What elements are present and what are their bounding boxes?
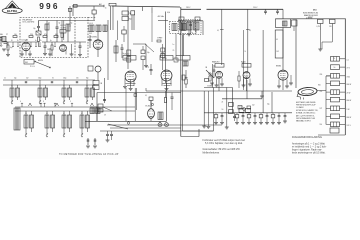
- smoothing resistor R22: [229, 102, 234, 106]
- wire vertical x128: [127, 7, 129, 69]
- wire FM bus horizontal: [2, 41, 38, 43]
- tube V1 pin grounds: [21, 51, 23, 55]
- svg-text:50: 50: [222, 109, 224, 111]
- gang capacitor arrows: [29, 103, 32, 106]
- resistor R4: [51, 45, 53, 50]
- tuning coil bank B L20: [24, 115, 28, 128]
- svg-text:50: 50: [334, 67, 336, 69]
- wire vertical x208.3: [207, 91, 209, 126]
- svg-text:37: 37: [63, 86, 65, 88]
- wire mid bus y98.8: [222, 98, 262, 100]
- svg-text:25 W: 25 W: [347, 93, 351, 95]
- wire x104.5 down: [104, 78, 106, 103]
- svg-text:er imidlertid med 1 — 2 og 2 k: er imidlertid med 1 — 2 og 2 kob-: [292, 146, 327, 149]
- resistor R2: [61, 33, 63, 38]
- wire vertical x203 stub: [202, 21, 204, 35]
- svg-text:27: 27: [6, 34, 8, 36]
- trimmer row A caps: [25, 81, 27, 83]
- tube V8 pin grounds: [278, 80, 280, 87]
- wire loop bottom: [85, 120, 167, 122]
- svg-text:6k8: 6k8: [55, 34, 58, 36]
- switch contact A4: [86, 101, 88, 103]
- decoupling capacitor on AF bus 10: [278, 113, 280, 116]
- svg-text:Anvisninger på 1 — 2 og 2 Watt: Anvisninger på 1 — 2 og 2 Watt: [292, 143, 325, 146]
- svg-text:220: 220: [329, 26, 332, 28]
- svg-text:47k: 47k: [44, 34, 47, 36]
- wire mid horizontal y44: [133, 43, 146, 45]
- dial lamp L2: [165, 123, 169, 127]
- svg-text:0,1: 0,1: [347, 59, 349, 61]
- svg-text:EABC80: EABC80: [212, 61, 219, 64]
- aerial coil tap: [93, 6, 95, 10]
- svg-text:2k: 2k: [40, 40, 42, 42]
- stubs above bus B: [21, 103, 23, 107]
- wire bottom right bus: [318, 134, 345, 136]
- AF driver tube V7 EL84: [243, 72, 250, 79]
- tube V6 pin grounds: [216, 78, 218, 85]
- svg-text:2k: 2k: [222, 102, 224, 104]
- AVC filter boxes: [93, 81, 99, 85]
- wire y20 stub: [158, 19, 168, 21]
- capacitor C1 FM input: [38, 21, 40, 27]
- FM tube V1 UCC85 triode a: [22, 42, 30, 50]
- svg-text:FERTES MELLEM PICK-UP: FERTES MELLEM PICK-UP: [296, 105, 316, 107]
- wire stub x152: [151, 7, 153, 13]
- dial pointer pivot: [127, 122, 129, 124]
- IF transformer T2 dashed enclosure: [170, 22, 196, 34]
- tube V5 label box: [160, 56, 173, 61]
- coupling capacitor C10: [150, 69, 153, 71]
- svg-text:7k: 7k: [244, 51, 246, 53]
- mixer anode wire: [97, 32, 99, 40]
- tube V7 pin grounds: [243, 79, 245, 86]
- wire vertical x247 drop lower: [246, 80, 248, 99]
- svg-text:6,8k: 6,8k: [167, 12, 170, 14]
- tube V4 pin wires: [124, 78, 126, 86]
- svg-text:ECH81: ECH81: [91, 37, 98, 39]
- feedback network cluster: [238, 106, 242, 110]
- voltage selector tap resistor 3: [331, 74, 340, 79]
- svg-text:36: 36: [39, 86, 41, 88]
- dipole antenna input marks: [4, 41, 8, 43]
- trimmer capacitor C2: [36, 31, 41, 35]
- IF transformer T2 trimmers: [189, 24, 192, 26]
- svg-text:0,1: 0,1: [217, 30, 219, 32]
- svg-text:50p: 50p: [147, 52, 150, 54]
- AF amp tube V6 EABC80: [216, 71, 223, 78]
- band switch S1 contacts: [24, 60, 34, 65]
- wire AM aerial rail left segment: [72, 5, 104, 7]
- svg-text:3-12: 3-12: [89, 33, 92, 35]
- svg-text:kede anvisninger er på 0,5 Wat: kede anvisninger er på 0,5 Watt.: [292, 152, 326, 155]
- decoupling capacitor on AF bus 4: [242, 113, 244, 116]
- svg-text:6,8k 100: 6,8k 100: [124, 54, 130, 56]
- FM tuner dashed top extension: [88, 17, 96, 19]
- wire FM internal top bus: [39, 20, 96, 22]
- tuning coil bank B extra pair: [90, 108, 95, 114]
- bus cluster boxes: [239, 108, 244, 112]
- switch contact B2: [46, 134, 48, 136]
- tuning coil bank B L22: [62, 115, 66, 128]
- svg-text:0,1: 0,1: [242, 63, 244, 65]
- svg-text:800 W: 800 W: [347, 84, 352, 86]
- wire long y128: [110, 127, 181, 129]
- svg-text:800 W: 800 W: [347, 100, 352, 102]
- tuning coil bank A L10: [10, 88, 14, 97]
- svg-text:220 V~: 220 V~: [308, 16, 313, 18]
- svg-text:40: 40: [46, 113, 48, 115]
- switch contact B3: [63, 134, 65, 136]
- svg-text:1k: 1k: [17, 40, 19, 42]
- svg-text:0,1: 0,1: [25, 40, 27, 42]
- svg-text:5 W: 5 W: [347, 109, 350, 111]
- FM oscillator coil L1: [45, 24, 49, 30]
- wire HT rail middle: [181, 8, 201, 10]
- svg-text:1n: 1n: [173, 44, 175, 46]
- oscillator coil bank: [89, 25, 94, 32]
- svg-text:9,5 MHz: 9,5 MHz: [61, 27, 67, 29]
- svg-text:L4 L5: L4 L5: [89, 23, 93, 25]
- svg-text:220: 220: [30, 34, 33, 36]
- wire switch bus A1: [3, 79, 95, 81]
- driver grid resistor: [238, 76, 240, 81]
- tuning coil bank B L21: [45, 115, 49, 128]
- oscillator padder tall coil: [14, 108, 20, 130]
- wire bottom AF bus: [146, 90, 292, 92]
- svg-text:1k5: 1k5: [14, 34, 17, 36]
- resistor R3: [7, 45, 9, 50]
- voltage selector tap resistor 1: [331, 57, 340, 62]
- antenna bus end marks: [103, 5, 105, 7]
- output tube cathode parts: [164, 98, 166, 103]
- IF transformer T4 coil a: [180, 22, 186, 30]
- FM tank capacitor C3: [56, 26, 59, 28]
- wire vertical x204.2: [203, 91, 205, 126]
- wire HT rail right: [276, 18, 346, 20]
- svg-text:5k 2k: 5k 2k: [239, 107, 243, 109]
- wire loop right edge: [166, 83, 168, 121]
- antenna matching box: [2, 37, 6, 42]
- decoupling component on AF bus 9: [272, 113, 274, 115]
- smoothing capacitor C23: [233, 115, 236, 117]
- svg-text:50: 50: [11, 40, 13, 42]
- svg-text:EZ80 EM80 EL84: EZ80 EM80 EL84: [303, 12, 318, 14]
- wire long y131: [100, 130, 214, 132]
- decoupling component on AF bus 5: [248, 113, 250, 115]
- aerial rail stub capacitor: [69, 6, 71, 12]
- component value row: [13, 36, 17, 38]
- svg-text:EBF80: EBF80: [124, 58, 131, 60]
- wire long y125: [107, 124, 222, 126]
- svg-text:127: 127: [320, 108, 323, 110]
- svg-text:9p: 9p: [71, 23, 73, 25]
- svg-text:80p: 80p: [86, 77, 89, 79]
- wire vertical x272 drop: [271, 92, 273, 113]
- dial lamp L1: [158, 123, 162, 127]
- voltage selector tap resistor 7: [331, 106, 340, 111]
- svg-text:1k: 1k: [4, 77, 6, 79]
- svg-text:80p: 80p: [129, 19, 132, 21]
- decoupling capacitor on AF bus 8: [266, 113, 268, 116]
- decoupling component on AF bus 7: [260, 113, 262, 115]
- tuning coil bank A L12: [62, 88, 66, 97]
- svg-text:162: 162: [276, 51, 279, 53]
- wire vertical x283 anode: [282, 9, 284, 18]
- tuning coil bank A L13: [85, 88, 89, 97]
- svg-text:250p: 250p: [63, 77, 67, 79]
- decoupling capacitor on AF bus 6: [254, 113, 256, 116]
- voltage selector tap resistor 5: [331, 90, 340, 95]
- capacitor C5: [79, 45, 82, 47]
- output transformer primary box: [275, 30, 283, 58]
- small box on HT rail: [182, 75, 185, 80]
- anode resistor stack R10: [127, 50, 131, 56]
- wire HT vertical x180.8: [180, 8, 182, 137]
- output stage socket box: [276, 19, 291, 28]
- svg-text:Grænseflader: 89 kHz ved 40: Grænseflader: 89 kHz ved 405 kHz: [203, 148, 241, 151]
- decoupling capacitor on AF bus 2: [221, 113, 223, 116]
- svg-text:12p: 12p: [33, 28, 36, 30]
- svg-text:3k: 3k: [52, 77, 54, 79]
- wire FM bottom bus: [42, 41, 86, 43]
- svg-text:P U G: P U G: [30, 66, 35, 68]
- tuning coil bank B L23: [80, 115, 84, 128]
- svg-text:50p: 50p: [14, 77, 17, 79]
- wire switch bus B1: [15, 106, 135, 108]
- svg-text:5p: 5p: [50, 40, 52, 42]
- T4 bottom marks: [180, 30, 182, 34]
- wire AF bus y112.8: [204, 112, 292, 114]
- ratio detector transformer T3: [176, 56, 190, 61]
- voltage selector tap resistor 4: [331, 81, 340, 86]
- IF transformer T4 dashed outline: [179, 20, 202, 35]
- wire vertical x221.8 drop: [221, 9, 223, 65]
- capacitor C4: [44, 45, 47, 47]
- voltage selector tap resistor 2: [331, 65, 340, 70]
- wire stub x142: [141, 7, 143, 11]
- wire vertical x176: [175, 34, 177, 56]
- svg-text:1k5: 1k5: [76, 77, 79, 79]
- tube V5 pin wires: [161, 78, 163, 86]
- wire switch bus B2: [15, 110, 135, 112]
- switch contact A2: [39, 101, 41, 103]
- svg-text:41: 41: [63, 113, 65, 115]
- svg-text:42: 42: [81, 113, 83, 115]
- resistor R1 FM grid: [38, 37, 40, 42]
- svg-text:110: 110: [320, 124, 323, 126]
- switch contact A3: [63, 101, 65, 103]
- svg-text:800: 800: [318, 85, 321, 87]
- svg-text:5,3 Ohm højttaler, men kan og: 5,3 Ohm højttaler, men kan og disk.: [205, 142, 243, 145]
- dropper ground R20: [319, 30, 321, 49]
- wire vertical x117.5: [117, 21, 119, 41]
- svg-text:ECC85: ECC85: [61, 25, 66, 27]
- pickup inset boxes: [98, 104, 103, 108]
- antenna terminal symbols left edge: [0, 36, 2, 44]
- svg-text:3p: 3p: [59, 23, 61, 25]
- decoupling component on AF bus 3: [236, 113, 238, 115]
- svg-text:7015: 7015: [347, 76, 351, 78]
- svg-text:50µ: 50µ: [267, 104, 270, 106]
- grid network cluster V10: [149, 97, 153, 101]
- svg-text:39: 39: [25, 113, 27, 115]
- voltage selector tap resistor 9: [331, 122, 340, 127]
- padder capacitor C9: [121, 47, 124, 49]
- svg-text:47p: 47p: [146, 67, 149, 69]
- svg-text:DIAGRAMFORKLARING: DIAGRAMFORKLARING: [292, 135, 322, 139]
- svg-text:38: 38: [86, 86, 88, 88]
- oscillator tube V3 small: [95, 66, 101, 72]
- svg-text:100: 100: [47, 49, 50, 51]
- smoothing resistor R23: [229, 110, 234, 114]
- svg-text:2k 470: 2k 470: [161, 54, 166, 56]
- EM80 wiring box right: [292, 20, 298, 26]
- oscillator coil L3: [114, 46, 118, 53]
- svg-text:1k: 1k: [334, 58, 336, 60]
- wire vertical x243.3 drop: [242, 30, 244, 90]
- wire loop top AF bus: [97, 92, 181, 94]
- wire vertical x232.5: [232, 88, 234, 113]
- svg-text:29: 29: [101, 111, 103, 113]
- wire elbow bottom middle: [181, 136, 199, 138]
- wire vertical x162.5: [162, 44, 164, 70]
- mains dropper resistor R21: [330, 19, 336, 23]
- svg-text:25: 25: [173, 50, 175, 52]
- voltage selector tap resistor 8: [331, 114, 340, 119]
- svg-text:800 W: 800 W: [347, 117, 352, 119]
- mixer tube V2 ECH81: [93, 40, 103, 50]
- switch contact B1: [25, 134, 27, 136]
- svg-text:Mellemfrekvens: Mellemfrekvens: [203, 152, 221, 155]
- svg-text:TO METODER FOR TILSLUTNING AF: TO METODER FOR TILSLUTNING AF PICK-UP: [59, 153, 119, 156]
- output tube V10 EL84 envelope: [148, 109, 155, 119]
- svg-text:87,5-100 MHz: 87,5-100 MHz: [23, 22, 35, 24]
- svg-text:2k2: 2k2: [252, 105, 255, 107]
- tube V4 label box: [123, 56, 136, 61]
- AF tube V6 grid parts: [209, 76, 211, 81]
- wire vertical x296: [295, 19, 297, 88]
- wire pair x135 down: [134, 88, 136, 121]
- svg-text:996: 996: [39, 1, 59, 11]
- IF transformer T4 top labels: [179, 17, 184, 21]
- svg-text:230: 230: [320, 74, 323, 76]
- svg-text:100p: 100p: [38, 77, 42, 79]
- svg-text:4p7: 4p7: [10, 47, 13, 49]
- svg-text:0,1: 0,1: [145, 95, 147, 97]
- wire bank B to loop: [90, 106, 97, 108]
- IF transformer T4 coil b: [187, 22, 193, 30]
- svg-text:ELTRA: ELTRA: [7, 9, 18, 13]
- FM detector coil L2: [66, 24, 70, 31]
- wire T4 bus: [178, 20, 203, 22]
- svg-text:29: 29: [104, 115, 106, 117]
- svg-text:EFTER SPOLE, DÆMPET LYD,: EFTER SPOLE, DÆMPET LYD,: [296, 110, 319, 112]
- diagonal pickup lever: [108, 124, 128, 129]
- svg-text:2n: 2n: [64, 47, 66, 49]
- svg-text:2n: 2n: [191, 32, 193, 34]
- svg-text:35: 35: [11, 86, 13, 88]
- wire vertical x108: [107, 20, 109, 80]
- wire AM aerial rail mid segment: [112, 6, 180, 7]
- FM tuner unit dashed enclosure: [20, 18, 88, 58]
- voltage selector tap resistor 6: [331, 97, 340, 102]
- svg-text:45: 45: [276, 39, 278, 41]
- IF transformer T4 coil c: [194, 22, 200, 30]
- wire loop left edge: [96, 93, 98, 122]
- volume control cluster: [206, 70, 214, 78]
- detector diode load resistor: [185, 79, 187, 84]
- svg-text:220: 220: [320, 91, 323, 93]
- voltage selector left wire: [326, 75, 331, 77]
- label cluster right of mixer: [122, 11, 128, 15]
- FM tuner internal dashed divider: [74, 18, 76, 58]
- svg-text:0,5: 0,5: [48, 23, 50, 25]
- svg-text:linger i signaturer. Røde ma: linger i signaturer. Røde mar-: [292, 149, 322, 152]
- mains plug box: [330, 128, 339, 133]
- IF amp tube V5 EF89: [161, 70, 172, 81]
- FM bus pin stubs row: [12, 42, 14, 47]
- loudspeaker LS1: [298, 87, 318, 96]
- aerial trimmer box: [109, 3, 116, 6]
- svg-text:EZ80: EZ80: [208, 85, 213, 87]
- misc ground mid: [261, 91, 263, 96]
- switch contact A1: [11, 101, 13, 103]
- smoothing choke vertical: [226, 88, 228, 128]
- svg-text:462 kHz: 462 kHz: [158, 16, 165, 18]
- svg-text:3n: 3n: [35, 40, 37, 42]
- decoupling capacitor on rail C12: [277, 9, 279, 11]
- tuning coil bank A L11: [38, 88, 42, 97]
- pick-up terminal symbol: [87, 138, 89, 145]
- wire vertical x182.6: [182, 35, 184, 131]
- svg-text:2k2: 2k2: [26, 77, 29, 79]
- IF transformer T2 primary coil: [172, 24, 177, 31]
- FM box pin stubs right: [49, 48, 51, 54]
- AGC boxes small: [161, 48, 165, 52]
- manufacturer logo ELTRA triangle emblem: [2, 1, 22, 14]
- svg-text:0,1: 0,1: [249, 30, 251, 32]
- mains dropper resistor R20: [318, 19, 324, 23]
- wire vertical x63.8: [63, 21, 65, 41]
- decoupling component on AF bus 1: [215, 113, 217, 115]
- wire vertical x263.1 drop: [262, 30, 264, 113]
- FM tube V1 UCC85 triode b: [60, 45, 67, 52]
- wire x126 down: [125, 88, 127, 121]
- switch contact B4: [81, 134, 83, 136]
- coupling box on aerial rail: [74, 4, 78, 7]
- mixer grid capacitor C8: [89, 39, 92, 41]
- svg-text:EM80: EM80: [276, 66, 281, 68]
- wire vertical x247.8 drop: [247, 9, 249, 71]
- dropper ground R21: [331, 30, 333, 42]
- IF coupling boxes mid: [141, 50, 145, 54]
- padder trimmer box: [122, 30, 126, 34]
- decoupling capacitor on rail C11: [265, 9, 267, 11]
- tone capacitor pair: [107, 131, 109, 134]
- IF transformer T1 top box: [131, 11, 135, 15]
- wire switch bus A2: [3, 84, 95, 86]
- magic eye tube V8 EM80: [278, 70, 288, 80]
- svg-text:1n: 1n: [105, 8, 107, 10]
- wire vertical x166 long: [165, 12, 167, 84]
- wire stub secondary: [183, 34, 185, 57]
- wire HT rail step: [180, 7, 182, 9]
- aerial double wire pair: [110, 6, 112, 30]
- IF transformer T2 secondary coil: [181, 24, 186, 31]
- svg-text:EL84: EL84: [146, 106, 150, 108]
- wire right column x345: [344, 18, 346, 135]
- IF amp tube V4 EBF80: [125, 71, 136, 82]
